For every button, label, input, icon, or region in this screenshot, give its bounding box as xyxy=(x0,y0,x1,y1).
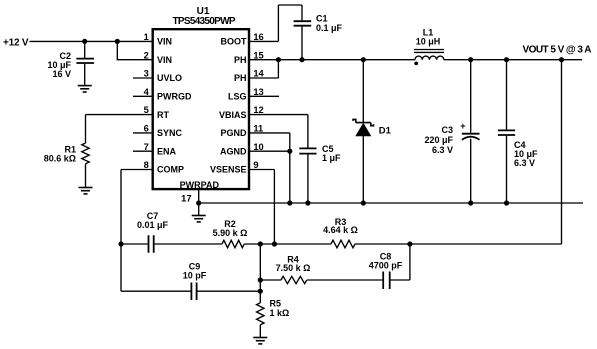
svg-text:220 μF: 220 μF xyxy=(424,135,453,145)
svg-text:10 pF: 10 pF xyxy=(183,270,207,280)
svg-text:VOUT 5 V @ 3 A: VOUT 5 V @ 3 A xyxy=(523,45,592,56)
svg-text:8: 8 xyxy=(144,160,149,170)
svg-text:10 μH: 10 μH xyxy=(416,37,441,47)
svg-text:SYNC: SYNC xyxy=(157,128,183,138)
svg-text:5: 5 xyxy=(144,105,149,115)
svg-text:6: 6 xyxy=(144,124,149,134)
svg-text:VSENSE: VSENSE xyxy=(210,165,247,175)
svg-text:6.3 V: 6.3 V xyxy=(514,158,535,168)
svg-text:5.90 k Ω: 5.90 k Ω xyxy=(213,228,248,238)
svg-text:4700 pF: 4700 pF xyxy=(369,260,403,270)
svg-text:PH: PH xyxy=(234,73,247,83)
svg-text:1: 1 xyxy=(144,32,149,42)
svg-text:PH: PH xyxy=(234,55,247,65)
svg-text:15: 15 xyxy=(253,50,263,60)
svg-text:BOOT: BOOT xyxy=(221,37,248,47)
svg-text:UVLO: UVLO xyxy=(157,73,182,83)
svg-text:3: 3 xyxy=(144,69,149,79)
svg-text:13: 13 xyxy=(253,87,263,97)
svg-text:1 μF: 1 μF xyxy=(322,153,341,163)
svg-text:0.01 μF: 0.01 μF xyxy=(137,220,169,230)
svg-text:16 V: 16 V xyxy=(52,69,71,79)
svg-text:17: 17 xyxy=(181,194,191,204)
svg-text:1 kΩ: 1 kΩ xyxy=(270,308,290,318)
svg-text:VBIAS: VBIAS xyxy=(219,110,247,120)
svg-text:+12 V: +12 V xyxy=(3,38,29,49)
svg-text:+: + xyxy=(460,121,465,131)
svg-text:VIN: VIN xyxy=(157,55,172,65)
svg-text:PWRPAD: PWRPAD xyxy=(180,180,220,190)
svg-text:D1: D1 xyxy=(379,125,392,136)
svg-text:VIN: VIN xyxy=(157,37,172,47)
svg-text:2: 2 xyxy=(144,50,149,60)
svg-text:7: 7 xyxy=(144,142,149,152)
svg-text:COMP: COMP xyxy=(157,165,184,175)
svg-text:0.1 μF: 0.1 μF xyxy=(316,23,343,33)
svg-text:C3: C3 xyxy=(441,125,453,135)
svg-text:6.3 V: 6.3 V xyxy=(432,145,453,155)
svg-text:7.50 k Ω: 7.50 k Ω xyxy=(276,263,311,273)
svg-text:LSG: LSG xyxy=(228,92,247,102)
svg-text:80.6 kΩ: 80.6 kΩ xyxy=(44,154,76,164)
svg-text:PWRGD: PWRGD xyxy=(157,92,192,102)
svg-text:4.64 k Ω: 4.64 k Ω xyxy=(323,225,358,235)
svg-text:PGND: PGND xyxy=(220,128,247,138)
svg-text:9: 9 xyxy=(253,160,258,170)
svg-text:11: 11 xyxy=(253,124,263,134)
svg-text:ENA: ENA xyxy=(157,146,177,156)
svg-text:AGND: AGND xyxy=(220,146,247,156)
svg-text:10: 10 xyxy=(253,142,263,152)
svg-text:16: 16 xyxy=(253,32,263,42)
svg-text:14: 14 xyxy=(253,69,264,79)
svg-text:TPS54350PWP: TPS54350PWP xyxy=(173,16,236,27)
svg-text:RT: RT xyxy=(157,110,169,120)
svg-text:12: 12 xyxy=(253,105,263,115)
svg-text:4: 4 xyxy=(144,87,150,97)
